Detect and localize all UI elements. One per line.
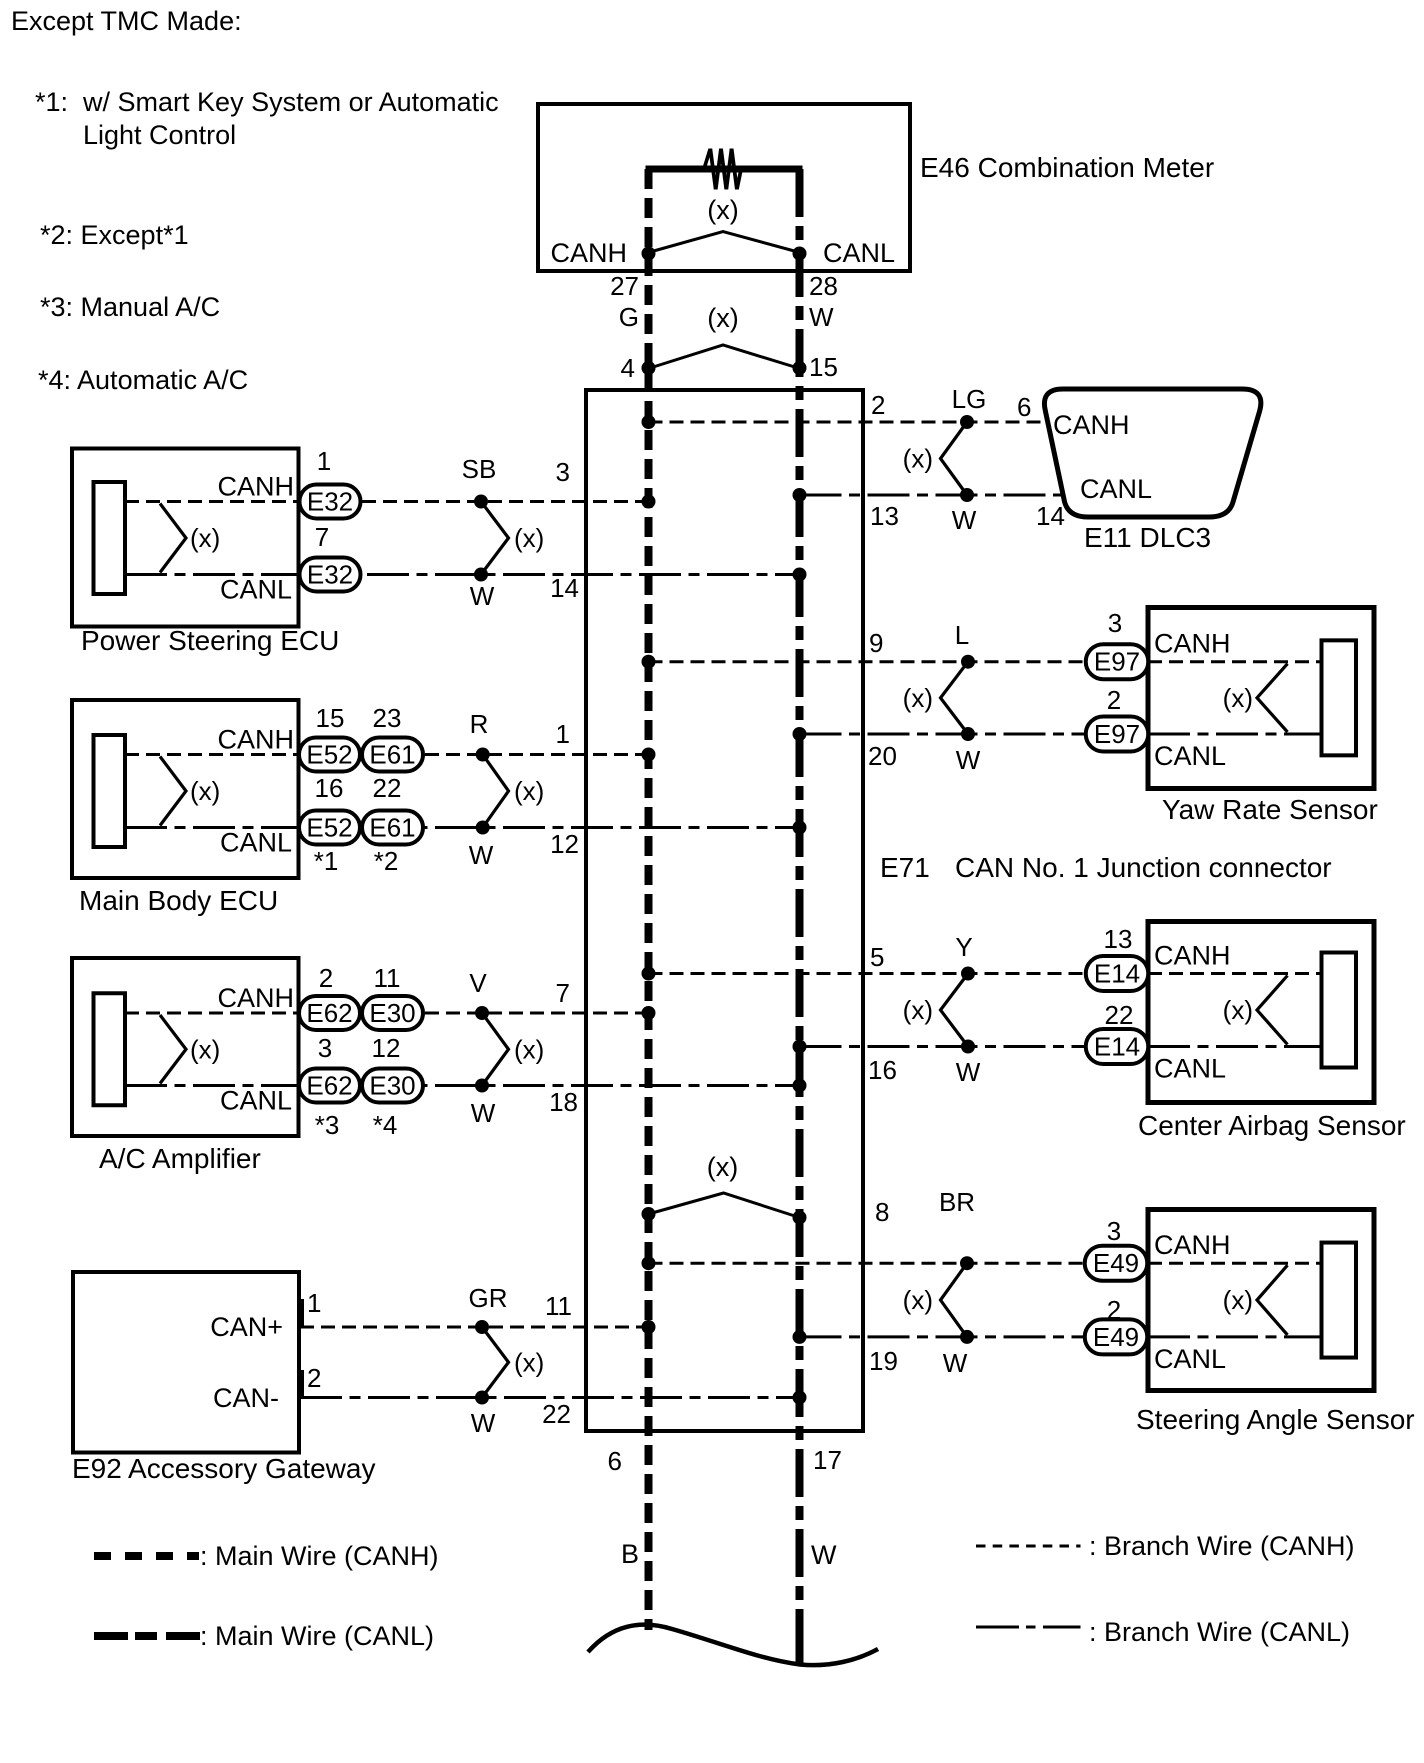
node CA CANH on main xyxy=(642,967,656,981)
svg-text:SB: SB xyxy=(462,454,497,484)
connector E14 pin 13 xyxy=(1086,956,1149,991)
svg-text:E97: E97 xyxy=(1094,719,1140,749)
node SA CANH on main xyxy=(642,1256,656,1270)
svg-text:CANH: CANH xyxy=(1154,629,1231,659)
svg-text:16: 16 xyxy=(868,1055,897,1085)
svg-text:CAN+: CAN+ xyxy=(210,1312,283,1342)
wire branch Yaw CANH (L) xyxy=(649,660,1149,663)
svg-text:CAN No. 1 Junction connector: CAN No. 1 Junction connector xyxy=(955,852,1332,883)
pin 1 stub xyxy=(301,1299,304,1327)
svg-text:: Main Wire (CANH): : Main Wire (CANH) xyxy=(200,1541,439,1571)
wire branch SA CANL (W) xyxy=(800,1335,1149,1338)
legend branch wire CANL xyxy=(976,1626,1081,1629)
wire branch SA CANH (BR) xyxy=(649,1262,1149,1265)
svg-text:3: 3 xyxy=(318,1033,332,1063)
svg-text:11: 11 xyxy=(545,1291,572,1321)
combination meter E46 box xyxy=(538,104,910,271)
wire branch AC CANH (V) xyxy=(299,1012,649,1015)
svg-text:CANL: CANL xyxy=(1154,1344,1226,1374)
wire branch EG CAN+ (GR) xyxy=(300,1326,649,1329)
legend main wire CANH xyxy=(94,1552,199,1560)
connector E32 pin 1 xyxy=(300,485,361,519)
main body ECU box xyxy=(72,700,299,878)
svg-text:GR: GR xyxy=(469,1283,508,1313)
svg-text:B: B xyxy=(621,1539,639,1569)
svg-text:E32: E32 xyxy=(307,487,353,517)
connector E52 pin 15 xyxy=(299,738,360,772)
svg-text:7: 7 xyxy=(315,522,329,552)
node CANL pin 28 xyxy=(793,247,807,261)
svg-text:E46 Combination Meter: E46 Combination Meter xyxy=(920,152,1214,183)
shield (x) inside E46 xyxy=(650,232,798,253)
shield (x) on PS branch xyxy=(481,502,509,575)
svg-text:W: W xyxy=(471,1098,496,1128)
svg-text:E52: E52 xyxy=(306,813,352,843)
wire branch AC CANL (W) xyxy=(299,1084,800,1087)
node AC CANL on main xyxy=(793,1079,807,1093)
svg-text:22: 22 xyxy=(1105,1000,1134,1030)
svg-text:23: 23 xyxy=(373,703,402,733)
node MB CANH on main xyxy=(642,748,656,762)
svg-text:6: 6 xyxy=(608,1446,622,1476)
svg-text:(x): (x) xyxy=(514,1347,544,1377)
svg-text:(x): (x) xyxy=(1223,1285,1253,1315)
shield (x) on Yaw branch xyxy=(941,662,969,734)
connector E49 pin 2 xyxy=(1085,1319,1148,1354)
svg-text:CANH: CANH xyxy=(1154,941,1231,971)
wire branch EG CAN- (W) xyxy=(300,1396,800,1399)
node CANH pin 27 xyxy=(642,247,656,261)
svg-text:3: 3 xyxy=(1108,608,1122,638)
DLC3 E11 shape xyxy=(1044,389,1260,517)
svg-text:17: 17 xyxy=(813,1445,842,1475)
connector E62 pin 2 xyxy=(299,996,360,1030)
svg-text:E62: E62 xyxy=(306,1071,352,1101)
A/C amplifier box xyxy=(72,958,299,1136)
node AC CANH on main xyxy=(642,1006,656,1020)
svg-text:2: 2 xyxy=(1107,685,1121,715)
svg-text:E49: E49 xyxy=(1093,1248,1139,1278)
svg-text:LG: LG xyxy=(952,384,987,414)
svg-text:8: 8 xyxy=(875,1197,889,1227)
connector E97 pin 2 xyxy=(1086,717,1149,752)
svg-text:27: 27 xyxy=(610,271,639,301)
svg-text:W: W xyxy=(956,1057,981,1087)
svg-text:CANH: CANH xyxy=(1053,410,1130,440)
wire CANL main (W) xyxy=(796,169,804,1664)
svg-text:6: 6 xyxy=(1017,392,1031,422)
svg-text:: Branch Wire (CANH): : Branch Wire (CANH) xyxy=(1089,1531,1355,1561)
svg-text:CANL: CANL xyxy=(220,1086,292,1116)
svg-text:Power Steering ECU: Power Steering ECU xyxy=(81,625,339,656)
power steering ECU box xyxy=(72,449,299,627)
pin 2 stub xyxy=(301,1370,304,1398)
svg-text:22: 22 xyxy=(542,1399,571,1429)
svg-text:(x): (x) xyxy=(190,1034,220,1064)
svg-text:19: 19 xyxy=(869,1346,898,1376)
node pin 4 xyxy=(642,361,656,375)
svg-text:A/C Amplifier: A/C Amplifier xyxy=(99,1143,261,1174)
svg-text:CANH: CANH xyxy=(550,238,627,268)
svg-text:E49: E49 xyxy=(1093,1322,1139,1352)
wire branch PS CANL (W) xyxy=(299,573,800,576)
svg-text:(x): (x) xyxy=(190,776,220,806)
steering angle sensor box xyxy=(1148,1210,1374,1391)
svg-text:CANL: CANL xyxy=(823,238,895,268)
svg-text:1: 1 xyxy=(317,446,331,476)
svg-text:3: 3 xyxy=(556,457,570,487)
accessory gateway E92 box xyxy=(73,1272,299,1453)
svg-text:E14: E14 xyxy=(1094,959,1140,989)
svg-text:9: 9 xyxy=(869,628,883,658)
svg-text:E11 DLC3: E11 DLC3 xyxy=(1084,522,1211,553)
svg-text:(x): (x) xyxy=(514,523,544,553)
svg-text:CANH: CANH xyxy=(217,725,294,755)
wire branch CA CANH (Y) xyxy=(649,972,1149,975)
svg-text:V: V xyxy=(469,968,487,998)
node pin 15 xyxy=(793,361,807,375)
wire branch DLC3 CANL (W) xyxy=(800,494,1067,497)
svg-text:*4: Automatic A/C: *4: Automatic A/C xyxy=(38,365,248,395)
svg-text:(x): (x) xyxy=(514,1034,544,1064)
svg-text:R: R xyxy=(470,709,489,739)
svg-text:(x): (x) xyxy=(190,523,220,553)
shield (x) on AC branch xyxy=(482,1013,509,1086)
svg-text:12: 12 xyxy=(372,1033,401,1063)
svg-text:E62: E62 xyxy=(306,998,352,1028)
svg-text:CANL: CANL xyxy=(1154,1054,1226,1084)
connector E30 pin 11 xyxy=(362,996,423,1030)
node PS CANH on main xyxy=(642,495,656,509)
svg-text:CAN-: CAN- xyxy=(213,1383,279,1413)
svg-text:Y: Y xyxy=(955,932,972,962)
connector E52 pin 16 xyxy=(299,811,360,845)
svg-text:E30: E30 xyxy=(369,998,415,1028)
svg-text:7: 7 xyxy=(556,978,570,1008)
wire branch DLC3 CANH (LG) xyxy=(649,421,1049,424)
svg-text:11: 11 xyxy=(374,963,401,993)
svg-text:*1: w/ Smart Key System or Au: *1: w/ Smart Key System or Automatic xyxy=(35,87,499,117)
svg-text:18: 18 xyxy=(549,1087,578,1117)
connector E97 pin 3 xyxy=(1086,644,1149,679)
svg-text:E92 Accessory Gateway: E92 Accessory Gateway xyxy=(72,1453,375,1484)
wire CANL tail to break xyxy=(796,1646,804,1663)
yaw rate sensor box xyxy=(1148,608,1374,789)
shield (x) between meter and junction xyxy=(650,345,798,368)
svg-text:Light Control: Light Control xyxy=(83,120,236,150)
svg-text:(x): (x) xyxy=(903,683,933,713)
connector E61 pin 22 xyxy=(362,811,423,845)
svg-text:15: 15 xyxy=(809,352,838,382)
svg-text:(x): (x) xyxy=(1223,683,1253,713)
svg-text:(x): (x) xyxy=(903,995,933,1025)
node Yaw CANL on main xyxy=(793,727,807,741)
svg-text:(x): (x) xyxy=(514,776,544,806)
wire branch CA CANL (W) xyxy=(800,1045,1149,1048)
svg-text:W: W xyxy=(952,505,977,535)
connector E32 pin 7 xyxy=(300,558,361,592)
svg-text:E14: E14 xyxy=(1094,1032,1140,1062)
svg-text:13: 13 xyxy=(870,501,899,531)
svg-text:*2: *2 xyxy=(374,846,399,876)
node EG CAN- on main xyxy=(793,1391,807,1405)
shield (x) on MB branch xyxy=(483,755,509,828)
svg-text:Main Body ECU: Main Body ECU xyxy=(79,885,278,916)
svg-text:(x): (x) xyxy=(1223,995,1253,1025)
svg-text:2: 2 xyxy=(871,390,885,420)
svg-text:13: 13 xyxy=(1104,924,1133,954)
svg-text:*2: Except*1: *2: Except*1 xyxy=(40,220,189,250)
svg-text:E61: E61 xyxy=(369,740,415,770)
wire branch MB CANH (R) xyxy=(299,753,649,756)
legend main wire CANL xyxy=(94,1632,200,1640)
node MB CANL on main xyxy=(793,821,807,835)
connector E62 pin 3 xyxy=(299,1069,360,1103)
svg-text:E71: E71 xyxy=(880,852,930,883)
svg-text:Steering Angle Sensor: Steering Angle Sensor xyxy=(1136,1404,1415,1435)
svg-text:E61: E61 xyxy=(369,813,415,843)
node CA CANL on main xyxy=(793,1040,807,1054)
svg-text:(x): (x) xyxy=(903,444,933,474)
node Yaw CANH on main xyxy=(642,655,656,669)
svg-text:(x): (x) xyxy=(707,1152,738,1182)
svg-text:E52: E52 xyxy=(306,740,352,770)
svg-text:(x): (x) xyxy=(707,303,738,333)
shield (x) on SA branch xyxy=(941,1263,968,1337)
svg-text:W: W xyxy=(956,745,981,775)
junction connector E71 box xyxy=(586,390,863,1431)
svg-text:L: L xyxy=(955,620,969,650)
svg-text:2: 2 xyxy=(319,963,333,993)
node EG CAN+ on main xyxy=(642,1320,656,1334)
connector E14 pin 22 xyxy=(1086,1029,1149,1064)
svg-text:(x): (x) xyxy=(903,1285,933,1315)
svg-text:28: 28 xyxy=(809,271,838,301)
svg-text:W: W xyxy=(471,1408,496,1438)
svg-text:W: W xyxy=(943,1348,968,1378)
svg-text:CANL: CANL xyxy=(220,575,292,605)
svg-text:14: 14 xyxy=(1036,501,1065,531)
svg-text:14: 14 xyxy=(550,573,579,603)
svg-text:2: 2 xyxy=(1107,1295,1121,1325)
svg-text:Yaw Rate Sensor: Yaw Rate Sensor xyxy=(1162,794,1378,825)
shield (x) on CA branch xyxy=(941,974,969,1047)
connector E30 pin 12 xyxy=(362,1069,423,1103)
svg-text:W: W xyxy=(811,1540,837,1570)
svg-text:*4: *4 xyxy=(373,1110,398,1140)
svg-text:4: 4 xyxy=(621,353,635,383)
wire branch MB CANL (W) xyxy=(299,826,800,829)
wire break wavy line xyxy=(588,1625,878,1665)
svg-text:3: 3 xyxy=(1107,1216,1121,1246)
svg-text:CANL: CANL xyxy=(1154,741,1226,771)
svg-text:CANH: CANH xyxy=(217,472,294,502)
svg-text:12: 12 xyxy=(550,829,579,859)
svg-text:(x): (x) xyxy=(707,195,738,225)
shield (x) inside junction connector xyxy=(649,1193,800,1218)
wire branch Yaw CANL (W) xyxy=(800,733,1149,736)
wire branch PS CANH (SB) xyxy=(299,500,649,503)
svg-text:CANL: CANL xyxy=(1080,474,1152,504)
svg-text:22: 22 xyxy=(373,773,402,803)
svg-text:E30: E30 xyxy=(369,1071,415,1101)
center airbag sensor box xyxy=(1148,922,1374,1103)
shield (x) on EG branch xyxy=(482,1327,509,1398)
svg-text:1: 1 xyxy=(307,1288,321,1318)
svg-text:Center Airbag Sensor: Center Airbag Sensor xyxy=(1138,1110,1406,1141)
svg-text:5: 5 xyxy=(870,942,884,972)
svg-text:BR: BR xyxy=(939,1187,975,1217)
shield (x) on DLC3 branch xyxy=(941,422,968,495)
svg-text:W: W xyxy=(470,581,495,611)
svg-text:: Branch Wire (CANL): : Branch Wire (CANL) xyxy=(1089,1617,1350,1647)
svg-text:E32: E32 xyxy=(307,560,353,590)
legend branch wire CANH xyxy=(976,1545,1081,1548)
svg-text:20: 20 xyxy=(868,741,897,771)
connector E49 pin 3 xyxy=(1085,1246,1148,1281)
svg-text:Except TMC Made:: Except TMC Made: xyxy=(11,6,242,36)
node PS CANL on main xyxy=(793,568,807,582)
svg-text:16: 16 xyxy=(315,773,344,803)
svg-text:E97: E97 xyxy=(1094,647,1140,677)
svg-text:2: 2 xyxy=(307,1363,321,1393)
node DLC3 CANH on main xyxy=(642,415,656,429)
svg-text:G: G xyxy=(619,302,639,332)
svg-text:*3: *3 xyxy=(315,1110,340,1140)
svg-text:*3: Manual A/C: *3: Manual A/C xyxy=(40,292,220,322)
svg-text:CANH: CANH xyxy=(217,983,294,1013)
svg-text:W: W xyxy=(469,840,494,870)
resistor (terminating) in E46 xyxy=(646,166,803,173)
svg-text:CANH: CANH xyxy=(1154,1230,1231,1260)
wire CANH main (B) xyxy=(645,169,653,1630)
node SA CANL on main xyxy=(793,1330,807,1344)
node DLC3 CANL on main xyxy=(793,488,807,502)
svg-text:W: W xyxy=(809,302,834,332)
svg-text:*1: *1 xyxy=(314,846,339,876)
svg-text:15: 15 xyxy=(316,703,345,733)
svg-text:1: 1 xyxy=(556,719,570,749)
svg-text:CANL: CANL xyxy=(220,828,292,858)
svg-text:: Main Wire (CANL): : Main Wire (CANL) xyxy=(200,1621,434,1651)
connector E61 pin 23 xyxy=(362,738,423,772)
